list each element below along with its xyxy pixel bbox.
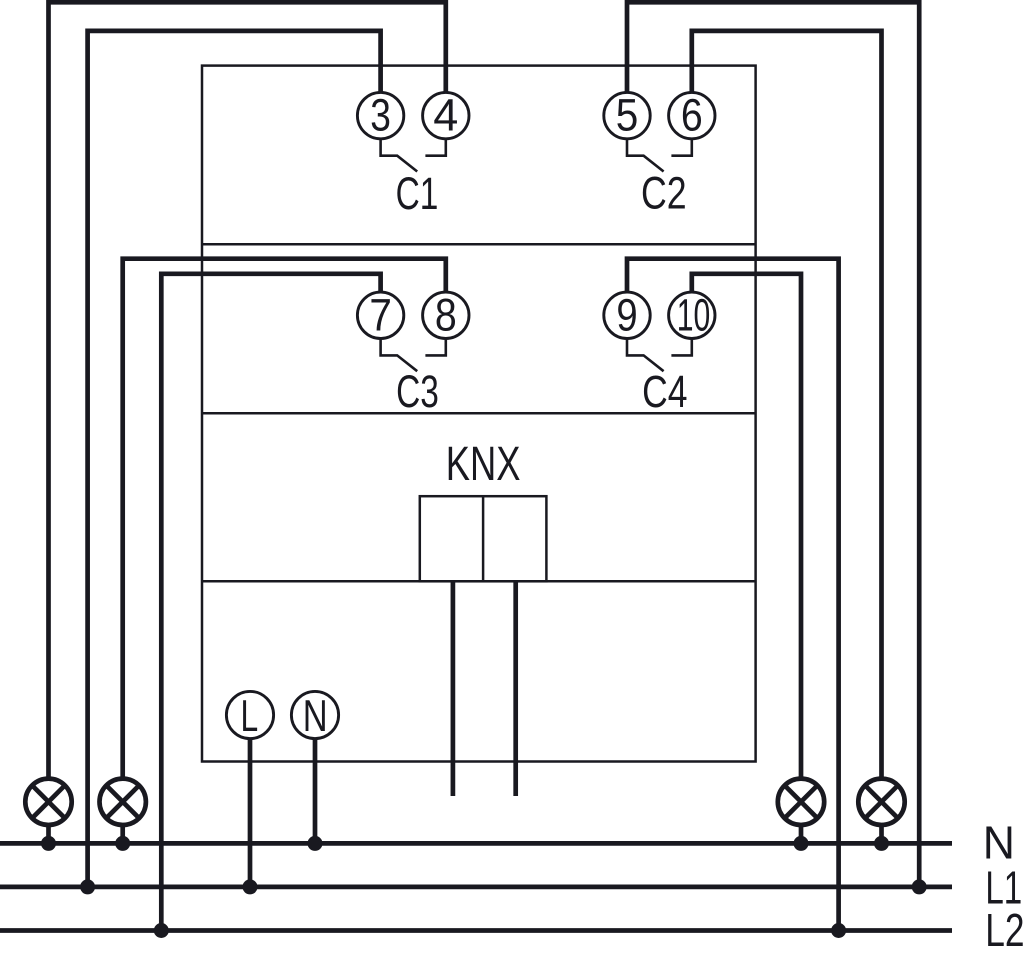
terminal 7 [357, 292, 403, 338]
wire lamp E3 to rail N [799, 825, 804, 844]
svg-text:7: 7 [369, 291, 392, 341]
junction dot terminal N / N [308, 836, 323, 851]
terminal N [291, 691, 338, 738]
terminal 4 [423, 92, 469, 138]
terminal L [226, 691, 273, 738]
svg-text:C4: C4 [642, 366, 687, 417]
device outline U1 [202, 66, 756, 762]
svg-text:KNX: KNX [446, 437, 521, 491]
svg-text:8: 8 [435, 290, 457, 340]
wire terminal N to rail N [313, 738, 318, 843]
lamp E1 [25, 779, 71, 825]
svg-text:9: 9 [616, 290, 637, 341]
terminal 8 [423, 292, 469, 338]
KNX bus wire 2 [513, 581, 518, 796]
junction dot lamp E2 / N [115, 836, 130, 851]
svg-text:6: 6 [681, 90, 703, 140]
svg-text:10: 10 [677, 291, 711, 342]
lamp E4 [858, 779, 904, 825]
svg-text:L2: L2 [985, 904, 1024, 956]
wire terminal L to rail L1 [248, 738, 253, 887]
svg-text:C1: C1 [396, 169, 439, 219]
terminal 6 [669, 92, 715, 138]
wire L1 to terminal 5 [627, 2, 919, 887]
terminal 10 [669, 292, 715, 338]
KNX bus wire 1 [451, 581, 456, 796]
rail L2 [0, 928, 952, 933]
rail N [0, 841, 952, 846]
switch contact C2 [627, 139, 692, 172]
wire L2 to terminal 9 [627, 259, 839, 931]
wire L1 to terminal 3 [88, 31, 381, 887]
junction dot wire 9 / L2 [831, 923, 846, 938]
wire lamp E2 to rail N [120, 825, 125, 844]
junction dot wire 7 / L2 [154, 923, 169, 938]
section divider 2 [202, 412, 756, 415]
switch contact C1 [381, 139, 446, 172]
svg-text:5: 5 [616, 91, 639, 141]
switch contact C3 [381, 338, 446, 371]
section divider 3 [202, 580, 756, 583]
wire lamp E1 to rail N [46, 825, 51, 844]
junction dot wire 3 / L1 [80, 879, 95, 894]
terminal 9 [604, 292, 650, 338]
switch contact C4 [627, 338, 692, 371]
svg-text:L: L [240, 692, 258, 742]
junction dot lamp E3 / N [794, 836, 809, 851]
rail L1 [0, 885, 952, 890]
terminal 5 [604, 92, 650, 138]
terminal 3 [357, 92, 403, 138]
junction dot terminal L / L1 [243, 879, 258, 894]
KNX connector box [420, 496, 547, 581]
lamp E3 [778, 779, 824, 825]
wire lamp E4 to rail N [879, 825, 884, 844]
svg-text:N: N [303, 692, 328, 741]
junction dot lamp E4 / N [874, 836, 889, 851]
junction dot lamp E1 / N [41, 836, 56, 851]
junction dot wire 5 / L1 [912, 879, 927, 894]
svg-text:3: 3 [370, 90, 391, 140]
lamp E2 [100, 779, 146, 825]
wire L2 to terminal 7 [161, 274, 380, 931]
svg-text:4: 4 [433, 90, 458, 141]
wire lamp E1 to terminal 4 [49, 2, 446, 778]
svg-text:C3: C3 [396, 367, 439, 417]
wire lamp E2 to terminal 8 [123, 259, 446, 779]
svg-text:C2: C2 [641, 167, 687, 218]
section divider 1 [202, 243, 756, 246]
wire lamp E3 to terminal 10 [692, 274, 801, 779]
wire lamp E4 to terminal 6 [692, 31, 882, 779]
